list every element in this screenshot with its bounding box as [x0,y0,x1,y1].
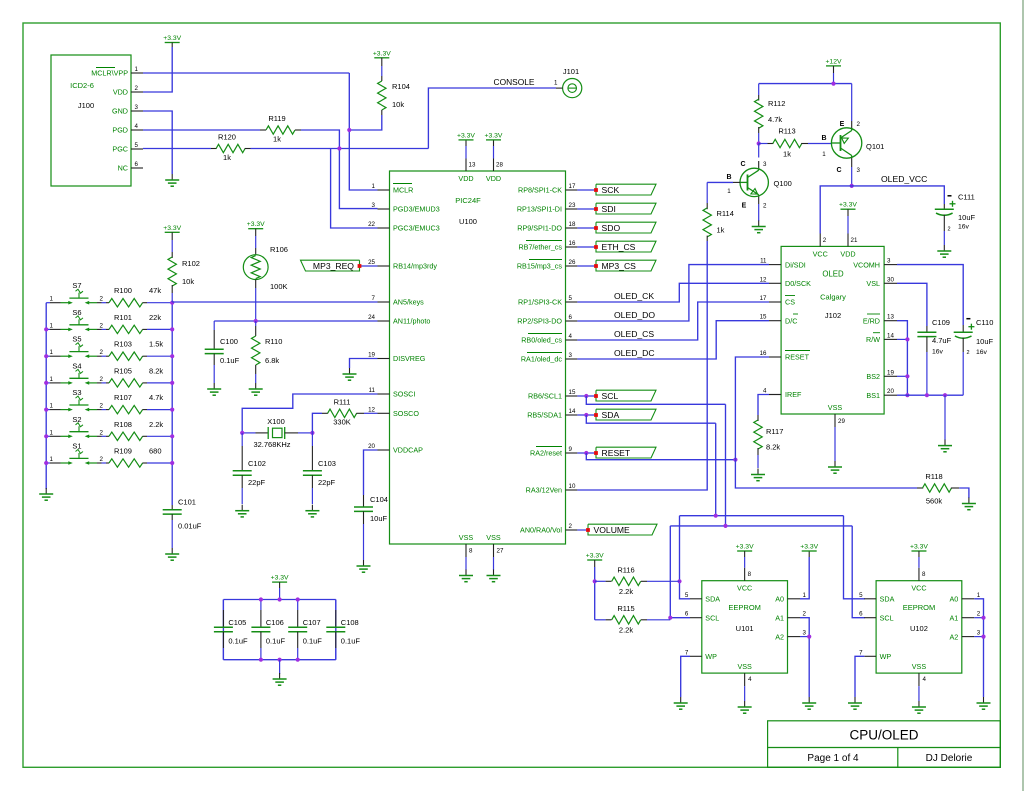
svg-text:10uF: 10uF [370,514,388,523]
wire R105 to bus [147,382,172,384]
svg-text:VSS: VSS [912,662,927,671]
svg-text:WP: WP [705,652,717,661]
svg-text:U100: U100 [459,217,477,226]
ground (R110) [255,383,257,389]
resistor R102 10k [171,232,173,240]
wire R/W to chain [897,338,907,340]
svg-text:VSS: VSS [486,533,501,542]
wire R103 to bus [147,355,172,357]
svg-text:26: 26 [569,259,576,266]
svg-text:RESET: RESET [602,448,631,458]
svg-text:17: 17 [569,183,576,190]
svg-text:18: 18 [569,221,576,228]
svg-text:3: 3 [803,630,807,637]
svg-text:22pF: 22pF [318,478,336,487]
svg-text:10k: 10k [182,277,194,286]
junction Q100 base node [757,141,761,145]
svg-text:0.1uF: 0.1uF [303,637,323,646]
wire OLED_VCC to C111 [852,186,945,204]
svg-text:2: 2 [100,429,104,436]
net flag VOLUME [588,524,657,535]
svg-text:0.1uF: 0.1uF [341,637,361,646]
svg-text:3: 3 [763,161,767,168]
capacitor C102 22pF [241,433,243,446]
junction RESET node [733,458,737,462]
J102 right pin 20 BS1 [884,394,897,396]
svg-text:RP2/SPI3-DO: RP2/SPI3-DO [517,317,562,326]
U100 right pin 4 RB0/oled_cs [566,339,578,341]
switch S1 [50,462,61,464]
junction switch bus [44,381,48,385]
svg-text:OLED_CS: OLED_CS [614,329,654,339]
svg-text:R114: R114 [717,209,734,218]
svg-text:OLED: OLED [822,270,844,279]
U100 left pin 1 MCLR [378,189,390,191]
canvas right edge line [1022,0,1024,791]
svg-text:B: B [726,174,731,181]
svg-text:1: 1 [50,456,54,463]
junction at pin (SCL) [584,394,588,398]
svg-text:SDO: SDO [602,223,621,233]
wire PGC segment [143,148,211,150]
ground (U100 8) [465,570,467,576]
svg-text:16: 16 [569,240,576,247]
wire DISVREG [350,359,378,369]
svg-text:6: 6 [859,611,863,618]
svg-text:ETH_CS: ETH_CS [602,242,636,252]
J100 pin 3 GND [131,110,143,112]
capacitor C101 0.01uF [171,505,173,510]
U100 right pin 15 RB6/SCL1 [566,395,578,397]
svg-text:5: 5 [569,295,573,302]
svg-text:MCLR: MCLR [393,186,413,195]
svg-text:S2: S2 [72,415,81,424]
junction SCL/R115 [668,616,672,620]
svg-text:C103: C103 [318,459,336,468]
svg-text:1: 1 [822,151,826,158]
svg-text:OLED_VCC: OLED_VCC [881,174,927,184]
svg-text:J100: J100 [78,101,94,110]
svg-text:SOSCO: SOSCO [393,409,419,418]
svg-text:2: 2 [100,322,104,329]
svg-text:2: 2 [100,376,104,383]
svg-text:+3.3V: +3.3V [163,225,181,232]
svg-text:PIC24F: PIC24F [455,196,481,205]
wire R114 to pin10 (12Ven) [577,241,707,490]
net flag SDA [596,409,656,420]
ground (C100) [213,383,215,389]
title block box [768,721,1001,768]
svg-text:A0: A0 [775,595,784,604]
U100 left pin 20 VDDCAP [378,449,390,451]
svg-text:VSS: VSS [459,533,474,542]
junction rail bottom [278,658,282,662]
U100 bottom pin 8 VSS [465,544,467,557]
svg-text:8: 8 [469,548,473,555]
svg-text:30: 30 [887,276,894,283]
wire to flag SDI [577,208,596,210]
svg-text:R116: R116 [617,566,634,575]
svg-text:6: 6 [135,161,139,168]
wire U102 VCC [918,551,920,557]
J102 right pin 14 R/W [884,338,897,340]
svg-text:8.2k: 8.2k [766,443,780,452]
svg-text:9: 9 [569,446,573,453]
svg-text:6: 6 [685,611,689,618]
capacitor C109 4.7uF 16v [926,326,928,332]
svg-text:15: 15 [760,314,767,321]
U100 right pin 9 RA2/reset [566,452,578,454]
svg-text:14: 14 [569,408,576,415]
svg-text:16: 16 [760,350,767,357]
svg-text:VCC: VCC [911,584,926,593]
wire S4 to R105 [102,382,107,384]
wire switch stub [46,435,50,437]
svg-text:3: 3 [135,104,139,111]
resistor R104 10k [381,58,383,66]
svg-text:SCL: SCL [880,613,894,622]
junction keys bus [170,434,174,438]
svg-text:RP1/SPI3-CK: RP1/SPI3-CK [518,298,562,307]
U102 right pin 3 A2 [962,636,975,638]
power +12V [826,65,841,67]
svg-text:4.7uF: 4.7uF [932,336,952,345]
junction keys bus [170,381,174,385]
svg-text:RP8/SPI1-CK: RP8/SPI1-CK [518,186,562,195]
wire BS2 to chain [897,375,907,377]
svg-text:16v: 16v [976,349,988,356]
net flag MP3_CS [596,260,656,271]
svg-text:R104: R104 [392,82,410,91]
svg-text:3: 3 [977,630,981,637]
ground (C101) [171,548,173,554]
wire S1 to R109 [102,462,107,464]
wire switch stub [46,355,50,357]
svg-text:AN5/keys: AN5/keys [393,298,424,307]
U100 left pin 22 PGC3/EMUC3 [378,227,390,229]
svg-text:S7: S7 [72,281,81,290]
svg-text:1k: 1k [223,153,231,162]
resistor R113 1k [759,143,768,145]
wire U101 VCC [744,551,746,557]
svg-text:VSL: VSL [866,279,880,288]
J100 pin 2 VDD [131,91,143,93]
svg-text:5: 5 [685,592,689,599]
svg-text:R100: R100 [114,286,132,295]
resistor R109 680 [106,462,109,464]
svg-text:C109: C109 [932,318,950,327]
svg-text:R115: R115 [617,604,634,613]
power +3.3V (decoupling) [272,581,287,583]
wire R109 to bus [147,462,172,464]
U100 right pin 3 RA1/oled_dc [566,358,578,360]
svg-text:2.2k: 2.2k [619,626,633,635]
svg-text:10uF: 10uF [958,213,976,222]
resistor R117 8.2k [757,415,759,421]
wire RESET to R118 [735,460,917,488]
svg-text:NC: NC [118,164,128,173]
wire R119 to PIC pin3 [301,130,378,209]
svg-text:+3.3V: +3.3V [586,553,604,560]
svg-text:RP13/SPI1-DI: RP13/SPI1-DI [517,205,562,214]
svg-text:2: 2 [763,203,767,210]
svg-text:2: 2 [569,523,573,530]
wire OLED_DC [577,321,769,359]
resistor R108 2.2k [106,435,109,437]
wire rail ground lead [279,660,281,674]
wire OLED_DO [577,265,769,321]
svg-text:+3.3V: +3.3V [736,544,754,551]
svg-text:1: 1 [727,188,731,195]
svg-text:R/W: R/W [866,335,880,344]
svg-text:C101: C101 [178,498,196,507]
svg-text:S1: S1 [72,442,81,451]
wire S7 to R100 [102,302,107,304]
junction switch bus [44,461,48,465]
svg-text:RP9/SPI1-DO: RP9/SPI1-DO [517,224,562,233]
net flag ETH_CS [596,241,656,252]
power +3.3V (U102 VCC) [911,550,926,552]
U100 left pin 3 PGD3/EMUD3 [378,208,390,210]
junction rail top [278,597,282,601]
svg-text:PGD3/EMUD3: PGD3/EMUD3 [393,205,440,214]
switch S7 [50,302,61,304]
wire R107 to bus [147,409,172,411]
svg-text:C: C [740,161,745,168]
junction SCL bus [723,524,727,528]
resistor R116 2.2k [595,580,606,582]
svg-text:BS1: BS1 [866,391,880,400]
U100 left pin 12 SOSCO [378,412,390,414]
wire U101 VSS [744,686,746,701]
svg-text:RB6/SCL1: RB6/SCL1 [528,392,562,401]
capacitor C108 0.1uF [335,600,337,611]
svg-text:OLED_DC: OLED_DC [614,348,655,358]
resistor R101 22k [106,328,109,330]
svg-text:6: 6 [569,314,573,321]
junction keys bus [170,354,174,358]
U102 right pin 2 A1 [962,617,975,619]
power +3.3V (R104) [374,57,389,59]
junction switch bus [44,408,48,412]
junction OLED_VCC [850,184,854,188]
J102 top pin 21 VDD [847,234,849,247]
ground (R117) [757,469,759,475]
capacitor C105 0.1uF [222,600,224,611]
U100 right pin 14 RB5/SDA1 [566,414,578,416]
switch S6 [50,328,61,330]
svg-text:R109: R109 [114,447,132,456]
IC U100 PIC24F box [390,171,566,544]
wire SDA bus [715,423,717,516]
svg-text:20: 20 [368,443,375,450]
capacitor C106 0.1uF [260,600,262,611]
svg-text:2: 2 [977,611,981,618]
wire OLED_CK [577,283,769,302]
svg-text:R102: R102 [182,259,200,268]
wire S5 to R103 [102,355,107,357]
wire PGC to CONSOLE riser [251,148,429,150]
wire S6 to R101 [102,328,107,330]
ground (U101 A-pins) [808,697,810,703]
wire BS1 row [897,394,963,396]
U102 right pin 1 A0 [962,598,975,600]
capacitor C111 10uF 16v [943,204,945,209]
U100 left pin 19 DISVREG [378,358,390,360]
power +3.3V (pullups) [587,559,602,561]
svg-text:47k: 47k [149,286,161,295]
ground (J100) [171,174,173,180]
svg-text:SDA: SDA [602,410,620,420]
svg-text:SDA: SDA [705,595,720,604]
wire RESET to OLED [735,357,769,460]
wire J102 VDD [847,209,849,216]
svg-text:S6: S6 [72,308,81,317]
wire VDDCAP [364,450,378,495]
wire SCL bus [725,404,727,526]
wire U102 VSS [918,686,920,701]
junction at pin (SDA) [584,413,588,417]
svg-text:X100: X100 [267,417,285,426]
svg-text:RA1/oled_dc: RA1/oled_dc [521,355,563,364]
svg-text:12: 12 [760,276,767,283]
U101 left pin 5 SDA [690,598,702,600]
U101 top pin 8 VCC [744,568,746,581]
svg-text:AN11/photo: AN11/photo [393,317,430,326]
U100 right pin 5 RP1/SPI3-CK [566,301,578,303]
ground (U101 WP) [680,697,682,703]
IC U102 EEPROM box [876,581,962,673]
J100 pin 4 PGD [131,129,143,131]
resistor R105 8.2k [106,382,109,384]
svg-text:3: 3 [372,202,376,209]
wire switch stub [46,462,50,464]
wire switch stub [46,302,50,304]
svg-text:11: 11 [369,387,376,394]
svg-text:2: 2 [948,227,951,233]
U100 left pin 11 SOSCI [378,393,390,395]
svg-text:2: 2 [803,611,807,618]
U100 right pin 2 AN0/RA0/Vol [566,529,578,531]
svg-text:J101: J101 [563,67,579,76]
J102 left pin 16 RESET [769,356,781,358]
U101 bottom pin 4 VSS [744,673,746,686]
svg-text:Q100: Q100 [774,179,792,188]
svg-text:1k: 1k [273,135,281,144]
svg-text:24: 24 [368,314,375,321]
svg-text:1: 1 [50,429,54,436]
wire RESET drop [586,453,735,460]
svg-text:VSS: VSS [737,662,752,671]
power +3.3V (J102 VDD) [841,208,856,210]
wire VSL [897,283,927,326]
svg-text:IREF: IREF [785,390,802,399]
resistor R107 4.7k [106,409,109,411]
ground (DISVREG) [349,368,351,374]
wire SDA drop [586,415,715,423]
power +3.3V (U100 pin 13) [459,139,474,141]
ground (C111) [943,245,945,251]
U100 top pin 28 VDD [493,159,495,172]
svg-text:WP: WP [880,652,892,661]
svg-text:C104: C104 [370,495,388,504]
ground (U101 VSS) [744,701,746,707]
switch S3 [50,409,61,411]
svg-text:0.1uF: 0.1uF [228,637,248,646]
wire Q101 emitter [851,84,853,121]
wire SCL to U101 [670,526,690,618]
capacitor C104 10uF [363,495,365,507]
junction SDA/R116 [677,579,681,583]
wire to flag SCK [577,189,596,191]
wire Q101 collector to OLED_VCC [851,167,853,186]
junction R/W [905,337,909,341]
junction switch bus [44,354,48,358]
svg-text:R107: R107 [114,393,132,402]
svg-text:100K: 100K [270,282,288,291]
svg-text:CPU/OLED: CPU/OLED [849,728,918,743]
svg-text:B: B [821,135,826,142]
resistor R118 560k [917,487,923,489]
wire to flag SCL [577,395,596,397]
svg-text:2: 2 [857,121,861,128]
net flag SCL [596,390,656,401]
junction U102 A1 [981,616,985,620]
svg-text:C108: C108 [341,618,359,627]
ground (J102 VSS) [834,461,836,467]
wire VCOMH [897,265,963,325]
wire BS1 ground drop [944,395,946,440]
resistor R119 1k [260,129,266,131]
U100 right pin 6 RP2/SPI3-DO [566,320,578,322]
wire pullup rail [594,560,596,567]
svg-text:E: E [742,203,747,210]
wire switch common bus [45,303,47,489]
svg-text:7: 7 [372,295,376,302]
svg-text:E: E [840,121,845,128]
U102 left pin 7 WP [864,655,876,657]
switch S4 [50,382,61,384]
svg-text:A2: A2 [950,632,959,641]
svg-text:C110: C110 [976,318,993,327]
wire OLED_VCC to VCC pin [820,186,852,234]
svg-text:R117: R117 [766,427,783,436]
svg-text:S4: S4 [72,361,81,370]
svg-text:2.2k: 2.2k [149,420,163,429]
svg-text:1: 1 [803,592,807,599]
svg-text:2: 2 [100,456,104,463]
svg-text:+3.3V: +3.3V [839,202,857,209]
U101 left pin 6 SCL [690,617,702,619]
ground (switch bus) [45,488,47,494]
svg-text:25: 25 [368,259,375,266]
svg-text:VSS: VSS [828,403,843,412]
svg-text:5: 5 [859,592,863,599]
svg-text:1: 1 [372,183,376,190]
crystal X100 32.768KHz [242,432,255,434]
svg-text:R110: R110 [265,337,282,346]
svg-text:13: 13 [469,162,476,169]
svg-text:C107: C107 [303,618,321,627]
junction rail top [259,597,263,601]
svg-text:Page 1 of 4: Page 1 of 4 [807,753,859,764]
wire to flag VOLUME [577,529,588,531]
wire MCLR/VPP net [143,72,349,74]
svg-text:D/C: D/C [785,316,797,325]
svg-text:DJ Delorie: DJ Delorie [926,753,973,764]
svg-text:MP3_REQ: MP3_REQ [313,261,354,271]
wire to flag MP3_REQ [360,265,378,267]
